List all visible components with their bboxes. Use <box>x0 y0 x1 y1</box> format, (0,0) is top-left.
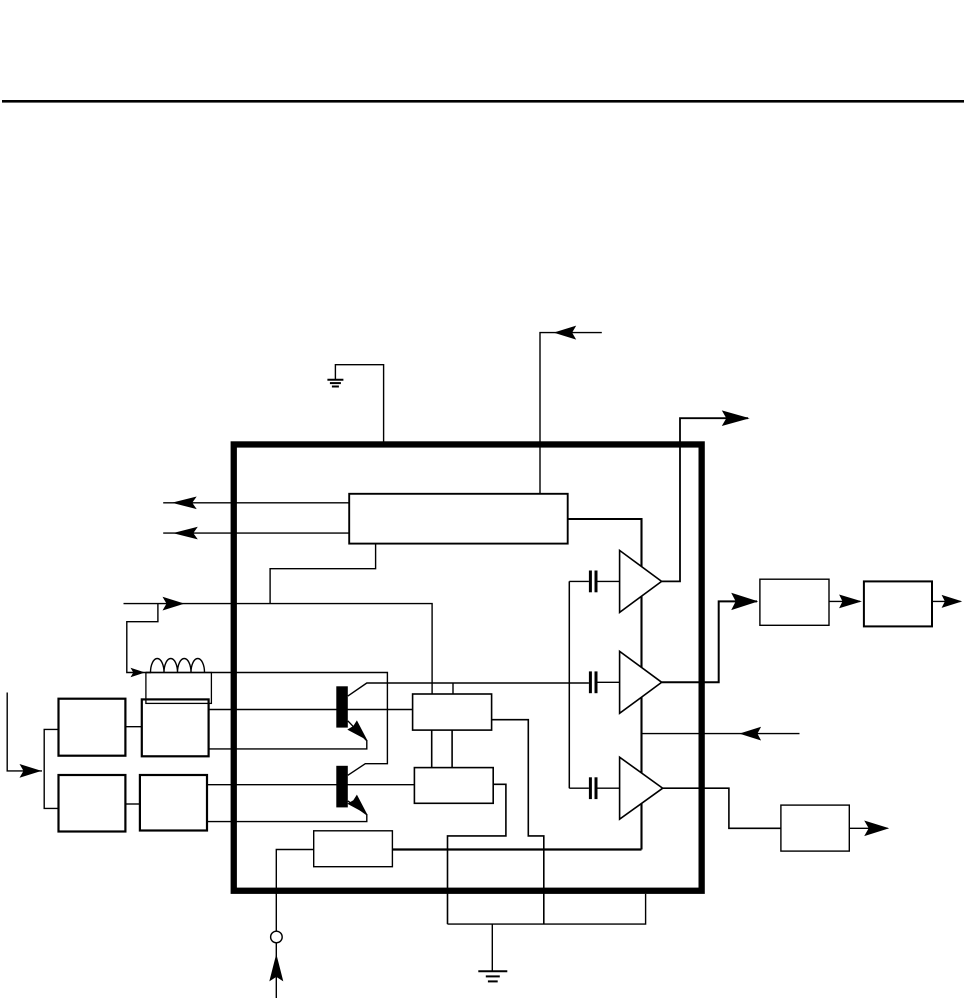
arrow main input right <box>163 597 185 611</box>
wire C1 to A1 <box>598 580 620 582</box>
arrow left out lower <box>173 527 198 540</box>
wire jog to coil <box>127 604 158 673</box>
arrow Q1 emitter <box>347 720 367 740</box>
wire R1-R2 <box>829 600 860 602</box>
wire B1-B2 link right <box>451 730 453 768</box>
wire B2 right to ground <box>448 784 506 924</box>
block1 IF block <box>349 494 568 544</box>
wire cap bus <box>568 581 570 788</box>
capacitor C3 <box>590 777 596 799</box>
transistor Q1 base bar <box>336 686 348 727</box>
wire A3 output <box>663 788 781 828</box>
wire main input line <box>124 604 433 694</box>
wire Q1 collector stub to B1 <box>452 683 454 694</box>
wire B1 right to ground <box>492 720 544 924</box>
box L1 <box>59 699 126 756</box>
wire A2 output <box>662 601 757 682</box>
wire ground rail <box>448 894 646 924</box>
arrow coil input <box>131 668 146 678</box>
arrow top-right output <box>722 410 750 426</box>
ground G1 <box>327 380 343 387</box>
wire Q1 emitter <box>209 721 367 749</box>
op-amp A1 <box>620 550 662 612</box>
wire block1 left out upper <box>163 502 349 504</box>
arrow into R1 <box>731 593 758 610</box>
box R3 <box>781 805 849 851</box>
ground G1 wire <box>335 365 383 444</box>
op-amp A2 <box>620 651 662 713</box>
wire pin top entry <box>540 333 602 494</box>
box L3 <box>59 775 126 832</box>
wire A1 output riser to top pin <box>662 418 748 581</box>
wire A2 return line <box>642 733 800 735</box>
wire R3 output <box>849 827 887 829</box>
wire pin bottom <box>275 943 277 998</box>
box L4 <box>140 775 207 831</box>
wire left bus <box>44 729 58 808</box>
coil box <box>146 673 212 704</box>
box B3 <box>314 831 393 867</box>
wire C3 input <box>569 787 589 789</box>
op-amp A3 <box>620 757 663 819</box>
wire B3 output thick <box>392 848 641 850</box>
wire L1-L2 <box>125 726 141 728</box>
box R1 <box>760 579 829 625</box>
IC outline U1 <box>234 444 702 890</box>
wire block1 bottom link <box>270 544 376 604</box>
arrow Q2 emitter <box>347 795 367 815</box>
arrow into R2 <box>839 595 862 609</box>
wire ground stem <box>491 924 493 971</box>
wire B1-B2 link left <box>431 730 433 768</box>
inductor coil <box>151 659 205 673</box>
arrow top entry left <box>554 326 577 340</box>
capacitor C2 <box>590 671 596 693</box>
arrow far-left input right <box>20 764 42 778</box>
box L2 <box>142 699 209 756</box>
arrow A2 return left <box>739 727 761 741</box>
box B1 <box>413 694 492 730</box>
wire L3-L4 <box>125 803 139 805</box>
transistor Q2 base bar <box>336 766 348 808</box>
page rule <box>2 100 964 103</box>
wire Q2 base line <box>207 784 415 786</box>
capacitor C1 <box>590 571 596 593</box>
pin circle <box>271 931 283 943</box>
wire block1 right to AGC rail <box>568 519 642 850</box>
wire Q1 collector <box>348 683 589 696</box>
box B2 <box>414 768 493 804</box>
ground G2 <box>478 971 507 981</box>
wire C2 to A2 <box>598 681 620 683</box>
arrow pin up <box>269 954 283 982</box>
arrow R2 output <box>942 595 963 608</box>
arrow R3 output <box>864 821 889 837</box>
wire C1 input <box>569 580 589 582</box>
wire far-left input <box>7 693 42 771</box>
wire Q2 emitter <box>207 801 367 822</box>
wire B3 left to pin <box>276 850 313 932</box>
wire block1 left out lower <box>163 532 349 534</box>
wire C3 to A3 <box>598 787 620 789</box>
box R2 <box>864 581 932 626</box>
wire R2 output <box>932 600 961 602</box>
wire coil line to Q2 collector <box>146 673 387 776</box>
wire Q1 base line <box>209 709 413 711</box>
arrow left out upper <box>172 497 197 510</box>
